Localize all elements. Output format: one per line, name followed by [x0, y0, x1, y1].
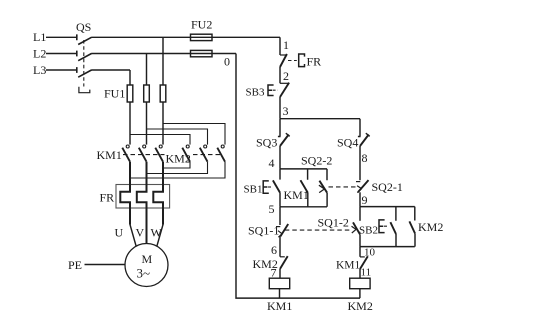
wire L2 left segment [46, 53, 77, 55]
svg-text:V: V [136, 226, 145, 240]
svg-text:KM1: KM1 [336, 260, 361, 272]
fuse FU1 pole 1 [127, 85, 133, 102]
svg-text:KM2: KM2 [166, 152, 191, 166]
FR actuator dashes [288, 60, 297, 62]
wire KM2-1 bottom crossover to C3 [163, 162, 190, 168]
wire control hot line down [279, 37, 281, 55]
svg-text:SB1: SB1 [244, 184, 263, 196]
fuse FU1 pole 2 [144, 85, 150, 102]
FR heater element 1 / wire C1 [120, 162, 130, 225]
wire SB1 to node 5 [279, 193, 281, 207]
svg-text:L1: L1 [33, 30, 46, 44]
svg-text:3~: 3~ [137, 266, 151, 281]
fuse FU2b body [191, 50, 213, 56]
wire SQ4 to SQ2-1 [359, 146, 361, 180]
wire node2-3 [279, 97, 281, 119]
svg-text:SB3: SB3 [246, 87, 265, 99]
limit switch SQ2-1 (NC) [356, 181, 360, 183]
limit switch SQ3 (NO) [278, 119, 281, 137]
wire KM2 coil to bus [359, 289, 361, 298]
wire KM1 coil to bus [279, 289, 281, 298]
limit switch SQ1-1 (NC) [279, 207, 281, 225]
svg-text:1: 1 [283, 38, 289, 52]
wire node 9 bar [360, 206, 415, 208]
svg-text:4: 4 [269, 156, 275, 170]
wire L1 right segment to FU2 [91, 36, 280, 38]
contactor KM2 main contact 2 [200, 145, 208, 162]
wire L3 left segment [46, 69, 77, 71]
interlock contact KM2 (NC) [280, 256, 285, 258]
contactor KM2 main contact 1 [182, 145, 190, 162]
wire KM1 NC to coil [359, 269, 361, 278]
wire SQ1-2 to node 10 [359, 234, 361, 246]
svg-text:KM1: KM1 [97, 148, 122, 162]
linkage SQ2-2 to SQ2-1 (dashed) [329, 186, 357, 188]
svg-text:FU1: FU1 [104, 87, 125, 101]
coil KM1 [269, 278, 289, 289]
svg-text:3: 3 [283, 104, 289, 118]
svg-text:SQ4: SQ4 [337, 136, 358, 150]
svg-text:PE: PE [68, 258, 82, 272]
pushbutton SB2 contact (NO) [395, 207, 397, 247]
svg-text:KM1: KM1 [267, 299, 292, 313]
wire SQ1-1 to KM2 NC [279, 236, 281, 256]
svg-text:SQ3: SQ3 [256, 136, 277, 150]
FR heater element 3 / wire C3 [153, 162, 163, 225]
svg-text:9: 9 [362, 193, 368, 207]
wire U lead to motor [130, 225, 136, 247]
SB1 plunger [263, 181, 269, 193]
switch QS pole 1 [77, 34, 92, 44]
svg-text:8: 8 [362, 151, 368, 165]
SB3 plunger [268, 85, 274, 96]
thermal relay FR box [116, 185, 170, 209]
svg-text:U: U [115, 226, 124, 240]
linkage dashes KM2 [193, 154, 222, 156]
switch QS pole 3 [77, 67, 92, 77]
contactor KM1 main contact 2 [139, 145, 147, 162]
wire KM2 NC to coil [279, 269, 281, 278]
fuse FU1 pole 3 [160, 85, 166, 102]
contactor KM2 main contact 3 [217, 145, 225, 162]
wire SQ2-1 to node 9 [359, 192, 361, 206]
svg-text:SQ1-2: SQ1-2 [318, 216, 349, 230]
switch QS linkage handle bracket [79, 87, 90, 93]
limit switch SQ2-2 (NO) [326, 169, 328, 207]
fuse FU2a body [191, 34, 213, 40]
wire W lead to motor [157, 225, 163, 247]
svg-text:SQ2-1: SQ2-1 [372, 180, 403, 194]
wire neutral 0 line [236, 54, 360, 299]
svg-text:6: 6 [271, 243, 277, 257]
switch QS pole 2 [77, 51, 92, 61]
svg-text:KM2: KM2 [418, 220, 443, 234]
pushbutton SB2 plunger [379, 220, 385, 233]
svg-text:7: 7 [271, 266, 277, 280]
wire phase column C2 (from L2) [146, 54, 148, 86]
wire node 10 bar [360, 246, 415, 248]
svg-text:SQ2-2: SQ2-2 [301, 154, 332, 168]
svg-text:FU2: FU2 [191, 18, 212, 32]
svg-text:5: 5 [269, 202, 275, 216]
wire C2 below fuse [146, 102, 148, 145]
wire phase column C1 (from L3) [129, 70, 131, 85]
interlock contact KM1 (NC) [359, 247, 361, 257]
svg-text:11: 11 [361, 267, 372, 279]
wire node1-2 [279, 67, 281, 83]
wire node 5 bar [280, 206, 327, 208]
wire C1 below fuse [129, 102, 131, 145]
wire phase column C3 (from L1) [162, 37, 164, 85]
aux contact KM2 (NO self-hold) [414, 207, 416, 247]
aux contact KM1 (NO self-hold) [301, 169, 308, 207]
svg-text:KM2: KM2 [348, 299, 373, 313]
wire SQ3 to node 4 [279, 146, 281, 169]
svg-text:M: M [142, 252, 153, 266]
svg-text:L2: L2 [33, 47, 46, 61]
wire L3 right segment [91, 69, 130, 71]
limit switch SQ4 (NO) [358, 119, 361, 137]
svg-text:L3: L3 [33, 63, 46, 77]
svg-text:QS: QS [76, 20, 91, 34]
relay contact FR (NC) [280, 54, 287, 56]
contactor KM1 main contact 1 [122, 145, 130, 162]
pushbutton SB3 (NC stop) [280, 82, 288, 84]
wire L1 left segment [46, 36, 77, 38]
limit switch SQ1-2 (NO) [359, 207, 361, 221]
linkage dashes KM1 [123, 154, 165, 156]
svg-text:FR: FR [307, 55, 322, 69]
svg-text:SB2: SB2 [359, 225, 378, 237]
coil KM2 [350, 278, 370, 289]
wire PE to motor [85, 264, 126, 266]
wire KM2-2 bottom crossover to C2 [147, 162, 208, 174]
svg-text:KM1: KM1 [284, 188, 309, 202]
wire L2 right segment to FU2 [91, 53, 236, 55]
svg-text:2: 2 [283, 69, 289, 83]
FR actuator symbol [299, 54, 305, 67]
svg-text:FR: FR [100, 191, 115, 205]
svg-text:0: 0 [224, 55, 230, 69]
wire node 4 bar [280, 168, 327, 170]
wire C3 below fuse [162, 102, 164, 145]
wire node 3 bus [280, 118, 360, 120]
wire KM2-3 bottom crossover to C1 [130, 162, 225, 178]
wire tap C2 to KM2 contact 2 top [147, 129, 208, 145]
motor M circle [125, 244, 168, 287]
FR heater element 2 / wire C2 [137, 162, 147, 244]
svg-text:10: 10 [364, 247, 376, 259]
wire tap C3 to KM2 contact 3 top [163, 124, 225, 145]
wire tap C1 to KM2 contact 1 top [130, 135, 190, 145]
svg-text:SQ1-1: SQ1-1 [248, 224, 279, 238]
contactor KM1 main contact 3 [155, 145, 163, 162]
pushbutton SB1 (NO start) [279, 169, 281, 180]
switch QS linkage (dashed) [83, 40, 85, 87]
linkage SQ1-1 to SQ1-2 (dashed) [285, 229, 350, 231]
